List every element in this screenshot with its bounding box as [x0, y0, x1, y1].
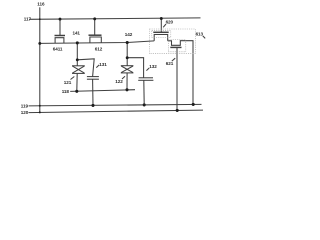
capacitor 131	[87, 77, 99, 80]
svg-text:131: 131	[99, 62, 107, 67]
wire bus 119	[29, 104, 202, 106]
junction dot v116 bus120	[39, 111, 41, 113]
svg-text:120: 120	[21, 110, 29, 115]
wire main source-drain line	[40, 41, 154, 44]
label arrow 621	[172, 58, 175, 61]
transistor 613a channel bump	[154, 35, 168, 41]
label arrow 121	[71, 77, 75, 80]
junction dot left vertical main line	[38, 42, 41, 45]
transistor 612 gate lead	[94, 19, 96, 35]
wire line 118	[70, 90, 135, 92]
junction dot node 141	[76, 41, 79, 44]
diode pair 121	[72, 60, 85, 74]
junction dot node 141 branch	[76, 58, 79, 61]
transistor 613a gate lead	[160, 19, 162, 33]
svg-text:132: 132	[149, 64, 157, 69]
transistor 613b gate bar	[170, 46, 181, 48]
svg-text:116: 116	[37, 2, 45, 7]
inner dashed box around 613a gate	[152, 31, 171, 38]
label arrow 131	[96, 65, 99, 68]
transistor 613b inverted channel	[168, 41, 193, 105]
svg-text:613: 613	[196, 32, 204, 37]
svg-text:620: 620	[166, 20, 174, 25]
transistor 6411 gate bar	[55, 35, 66, 37]
svg-text:141: 141	[73, 30, 81, 35]
node 141 drop wire	[76, 43, 78, 60]
diode pair 122	[121, 58, 134, 73]
capacitor 132	[138, 78, 153, 81]
wire capacitor 132 to bus 119	[143, 80, 145, 105]
junction dot rail gate 612	[93, 17, 96, 20]
junction dot drain bus119	[192, 103, 195, 106]
label arrow 620	[163, 24, 166, 27]
junction dot gate621 bus120	[176, 109, 179, 112]
wire vertical line 116	[39, 7, 41, 112]
junction dot node 142 branch	[126, 56, 129, 59]
label arrow 613	[203, 36, 205, 39]
svg-text:122: 122	[115, 79, 123, 84]
junction dot bus119 x40	[39, 105, 41, 107]
wire diode121 to line 118	[76, 73, 78, 91]
svg-text:121: 121	[64, 80, 72, 85]
label arrow 122	[122, 76, 125, 79]
wire bus 120	[29, 110, 203, 113]
wire top rail 117	[29, 18, 200, 19]
svg-text:612: 612	[95, 46, 103, 51]
svg-text:119: 119	[21, 104, 29, 109]
wire diode122 to line 118	[126, 73, 128, 90]
dashed box around 613	[149, 29, 195, 54]
svg-text:117: 117	[24, 16, 32, 21]
svg-text:142: 142	[125, 32, 133, 37]
wire capacitor 131 to bus 119	[92, 79, 94, 105]
transistor 6411 gate lead	[59, 19, 61, 35]
transistor 6411 channel bump	[55, 38, 64, 44]
junction dot rail gate 6411	[59, 18, 62, 21]
transistor 612 gate bar	[89, 34, 102, 36]
label arrow 132	[146, 68, 149, 71]
svg-text:6411: 6411	[53, 47, 63, 52]
junction dot diode122 line118	[125, 88, 128, 91]
transistor 612 channel bump	[90, 37, 101, 43]
junction dot rail x40	[39, 18, 41, 20]
junction dot cap131 bus119	[91, 104, 94, 107]
junction dot diode121 line118	[75, 90, 78, 93]
wire branch to capacitor 132	[127, 58, 143, 78]
inner dashed box around 613b	[168, 40, 186, 52]
transistor 613a gate bar	[153, 31, 168, 33]
junction dot cap132 bus119	[143, 103, 146, 106]
wire branch to capacitor 131	[77, 59, 94, 77]
svg-text:621: 621	[166, 61, 174, 66]
junction dot node 142	[126, 41, 129, 44]
node 142 drop wire	[126, 43, 128, 58]
junction dot rail node 620	[160, 17, 163, 20]
svg-text:118: 118	[62, 89, 70, 94]
wire gate 621 lead to bus 120	[176, 47, 178, 110]
